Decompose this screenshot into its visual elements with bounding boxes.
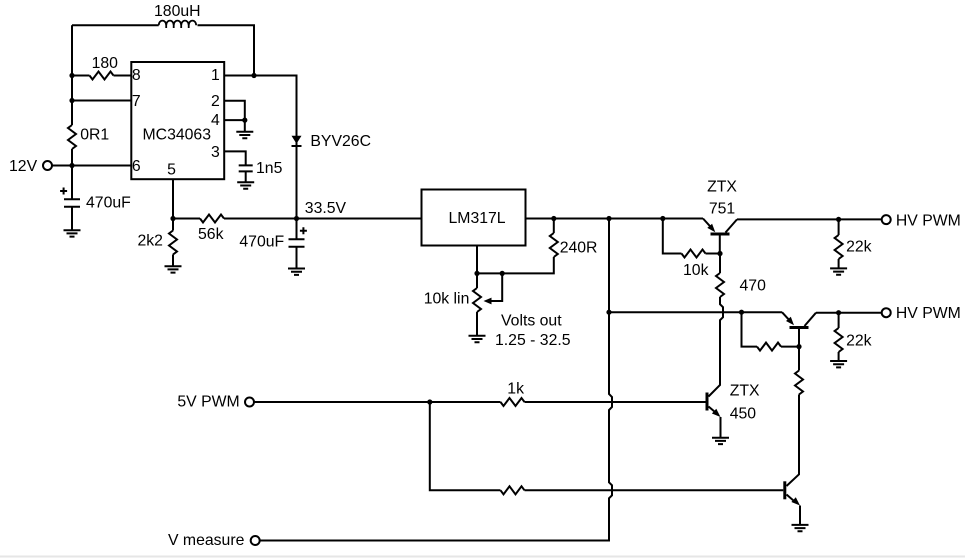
svg-text:12V: 12V bbox=[9, 158, 38, 175]
svg-text:V measure: V measure bbox=[168, 532, 245, 549]
svg-text:1k: 1k bbox=[507, 381, 524, 398]
svg-text:HV PWM: HV PWM bbox=[896, 212, 961, 229]
svg-text:6: 6 bbox=[132, 158, 141, 175]
svg-text:470: 470 bbox=[740, 278, 767, 295]
svg-text:470uF: 470uF bbox=[239, 234, 284, 251]
svg-text:2k2: 2k2 bbox=[138, 233, 163, 250]
svg-text:HV PWM: HV PWM bbox=[896, 305, 961, 322]
svg-text:4: 4 bbox=[211, 112, 220, 129]
svg-text:180uH: 180uH bbox=[154, 3, 201, 20]
svg-text:Volts out: Volts out bbox=[501, 313, 562, 330]
svg-text:ZTX: ZTX bbox=[730, 383, 760, 400]
svg-text:470uF: 470uF bbox=[86, 194, 131, 211]
svg-text:5: 5 bbox=[167, 162, 176, 179]
svg-text:5V PWM: 5V PWM bbox=[177, 394, 239, 411]
svg-text:10k: 10k bbox=[683, 262, 709, 279]
svg-text:56k: 56k bbox=[198, 226, 224, 243]
svg-text:1n5: 1n5 bbox=[256, 160, 283, 177]
svg-text:22k: 22k bbox=[846, 239, 872, 256]
svg-text:1.25 - 32.5: 1.25 - 32.5 bbox=[495, 332, 571, 349]
svg-text:3: 3 bbox=[211, 144, 220, 161]
svg-text:ZTX: ZTX bbox=[707, 179, 737, 196]
svg-text:22k: 22k bbox=[846, 333, 872, 350]
svg-text:751: 751 bbox=[709, 200, 736, 217]
svg-text:MC34063: MC34063 bbox=[143, 127, 212, 144]
svg-text:7: 7 bbox=[132, 93, 141, 110]
svg-text:LM317L: LM317L bbox=[449, 210, 506, 227]
svg-text:33.5V: 33.5V bbox=[305, 200, 347, 217]
svg-text:2: 2 bbox=[211, 93, 220, 110]
svg-text:240R: 240R bbox=[560, 239, 598, 256]
svg-text:450: 450 bbox=[730, 406, 757, 423]
svg-text:0R1: 0R1 bbox=[80, 127, 109, 144]
svg-text:1: 1 bbox=[211, 67, 220, 84]
svg-text:10k lin: 10k lin bbox=[424, 291, 470, 308]
svg-text:180: 180 bbox=[92, 55, 119, 72]
svg-text:BYV26C: BYV26C bbox=[310, 133, 371, 150]
svg-text:8: 8 bbox=[132, 67, 141, 84]
